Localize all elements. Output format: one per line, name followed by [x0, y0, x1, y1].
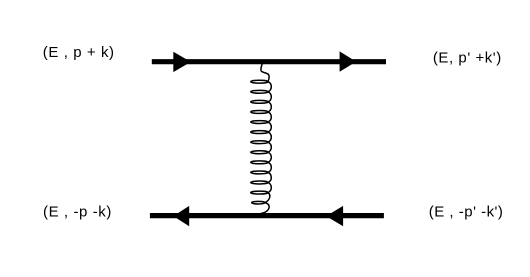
svg-text:(E , -p -k): (E , -p -k): [43, 203, 112, 220]
svg-text:(E , -p' -k'): (E , -p' -k'): [429, 203, 504, 220]
svg-text:(E , p + k): (E , p + k): [43, 44, 115, 61]
svg-text:(E, p' +k'): (E, p' +k'): [433, 50, 502, 67]
